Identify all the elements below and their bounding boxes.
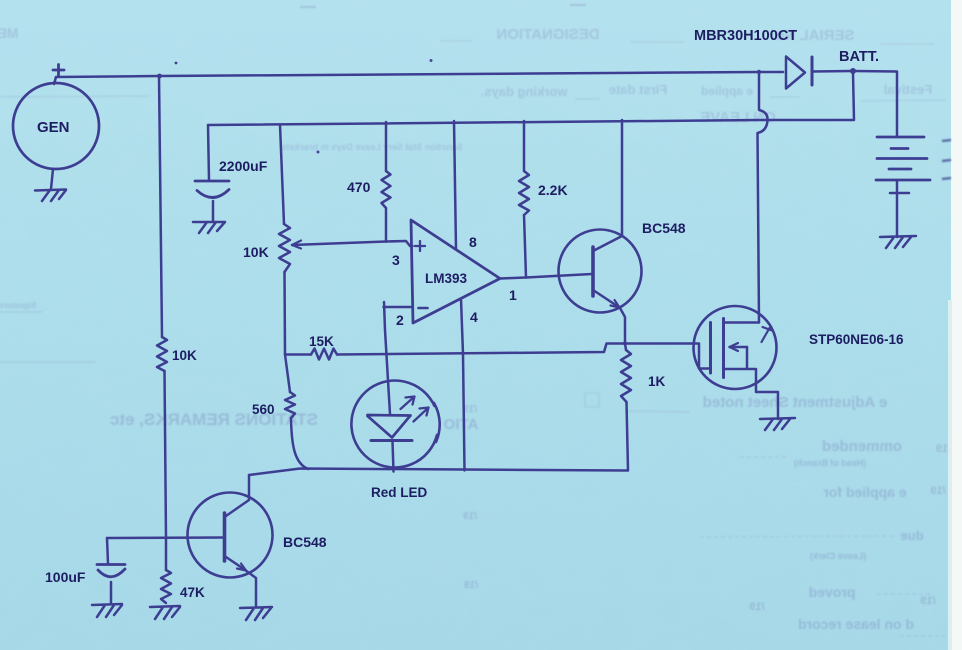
svg-text:ommended: ommended	[822, 438, 902, 455]
MOSFET drain connection	[724, 321, 760, 324]
resistor 2.2K top lead	[523, 121, 526, 171]
wire: GEN top to positive rail	[54, 77, 56, 84]
svg-text:/19: /19	[464, 580, 478, 591]
wire: second rail (after diode node down to distribution bus)	[208, 73, 854, 125]
LED triangle	[368, 415, 411, 438]
generator GEN plus terminal	[53, 65, 64, 76]
svg-text:BATT.: BATT.	[839, 49, 879, 65]
transistor Q2 base bar	[223, 513, 227, 561]
LED light arrow 2	[414, 408, 429, 422]
wire: top positive rail	[56, 72, 759, 77]
scan edge white strip	[951, 0, 962, 650]
svg-text:(Leave Clerk): (Leave Clerk)	[810, 551, 867, 561]
svg-text:DESIGNATION: DESIGNATION	[496, 26, 599, 43]
svg-text:MBR30H100CT: MBR30H100CT	[694, 28, 797, 44]
svg-text:470: 470	[347, 179, 371, 195]
svg-text:STATIONS REMARKS, etc: STATIONS REMARKS, etc	[110, 410, 318, 429]
wire: pin 2 inverting input	[384, 306, 413, 309]
MOSFET channel bar	[722, 319, 725, 378]
svg-text:/19: /19	[463, 511, 477, 522]
resistor 1K top lead	[625, 344, 626, 351]
svg-text:due: due	[900, 528, 923, 543]
MOSFET gate bar	[709, 323, 712, 374]
svg-text:2: 2	[396, 312, 404, 328]
capacitor 2200uF top lead	[208, 125, 209, 180]
wire: pin 4 ground line down to bottom bus	[461, 299, 465, 471]
transistor Q2 emitter with arrow	[225, 556, 247, 571]
svg-text:10K: 10K	[172, 348, 197, 363]
svg-text:Sanction Stat Serv Leave D: Sanction Stat Serv Leave Days in bracket…	[281, 142, 463, 152]
svg-text:d on lease record: d on lease record	[798, 616, 914, 632]
svg-text:Festival: Festival	[884, 82, 932, 97]
svg-text:1K: 1K	[648, 374, 666, 389]
svg-text:ME: ME	[0, 25, 19, 41]
diode D1 triangle	[786, 57, 805, 89]
svg-text:15K: 15K	[309, 334, 334, 349]
node: BATT junction dot	[850, 68, 856, 74]
svg-text:(Head of Branch): (Head of Branch)	[794, 458, 867, 468]
svg-text:10K: 10K	[243, 244, 269, 260]
resistor 470 bottom lead to node	[385, 208, 388, 242]
wire: battery top lead	[853, 71, 897, 137]
potentiometer 10K wiper arrow	[292, 242, 386, 246]
node: rail junction at left bus	[157, 74, 162, 79]
svg-text:e Adjustment Sheet noted: e Adjustment Sheet noted	[703, 394, 887, 411]
svg-text:19: 19	[936, 443, 948, 455]
transistor Q2 collector	[225, 475, 250, 517]
wire: op-amp output pin 1 to transistor base	[500, 274, 592, 279]
svg-text:e applied for: e applied for	[823, 484, 907, 500]
battery BATT plates	[876, 137, 930, 180]
svg-text:2200uF: 2200uF	[219, 158, 268, 174]
capacitor 2200uF plates	[195, 181, 229, 198]
ground under MOSFET	[760, 418, 795, 430]
resistor 15K element	[311, 349, 337, 360]
LED D2 circle	[351, 381, 439, 468]
svg-text:ATIO: ATIO	[443, 416, 478, 433]
transistor Q2 BC548 (lower) circle	[188, 493, 273, 578]
wire: 15K node to gate rail	[285, 353, 311, 356]
svg-text:47K: 47K	[180, 585, 205, 600]
LED cathode bar	[371, 439, 412, 442]
wire: pin 2 down to LED anode	[384, 302, 390, 414]
resistor 47K top lead	[165, 538, 168, 570]
wire: left vertical bus from rail to transistor base	[159, 76, 166, 538]
svg-text:GEN: GEN	[37, 119, 70, 136]
svg-text:First date: First date	[609, 82, 668, 97]
resistor 560 bottom lead (curved)	[291, 418, 308, 469]
capacitor 100uF top lead	[107, 538, 108, 564]
wire: pin 8 supply from rail	[454, 121, 456, 249]
generator GEN circle	[13, 83, 99, 169]
MOSFET gate lead	[694, 344, 710, 369]
node: emitter/gate/1K junction	[623, 341, 627, 345]
diode D1 MBR30H100CT anode wire	[759, 71, 783, 74]
transistor Q1 BC548 (upper) circle	[559, 230, 642, 313]
svg-text:BC548: BC548	[283, 534, 327, 550]
ground under 100uF	[92, 604, 122, 617]
resistor 470 element	[382, 171, 391, 208]
op-amp U1 LM393 triangle	[411, 220, 500, 323]
wire: base rail of lower transistor	[107, 536, 225, 539]
svg-text:4: 4	[470, 309, 478, 325]
wire: GEN bottom lead	[51, 169, 53, 189]
LED light arrow 1	[401, 397, 415, 410]
op-amp minus sign	[419, 307, 428, 310]
svg-text:Red LED: Red LED	[371, 485, 428, 500]
LED cathode lead to bus	[393, 441, 394, 472]
resistor 2.2K element	[519, 171, 529, 215]
resistor 560 element	[285, 392, 295, 418]
MOSFET body diode mark	[762, 327, 773, 342]
svg-text:2.2K: 2.2K	[538, 182, 568, 198]
capacitor 2200uF bottom lead	[212, 201, 215, 221]
svg-text:/19: /19	[920, 595, 935, 607]
ground under Q2 emitter	[240, 607, 272, 620]
svg-text:/19: /19	[930, 485, 945, 497]
wire: MOSFET drain vertical with hop over rail	[758, 72, 768, 323]
svg-text:100uF: 100uF	[45, 569, 86, 585]
capacitor 100uF plates	[97, 565, 125, 577]
battery negative lead with tick	[890, 180, 909, 237]
MOSFET source arrow	[730, 346, 748, 349]
svg-text:8: 8	[469, 234, 477, 250]
MOSFET Q3 circle	[694, 306, 777, 389]
svg-text:BC548: BC548	[642, 220, 686, 236]
svg-text:3: 3	[392, 252, 400, 268]
transistor Q1 base bar	[591, 247, 595, 296]
svg-text:560: 560	[252, 402, 275, 417]
transistor Q1 collector	[593, 120, 622, 251]
resistor 47K element	[161, 570, 171, 603]
potentiometer 10K top lead	[280, 125, 284, 224]
diode D1 cathode bar	[811, 57, 814, 85]
transistor Q1 emitter with arrow	[593, 290, 620, 308]
wire: diode to battery node	[812, 70, 852, 73]
svg-text:LM393: LM393	[425, 271, 468, 286]
ground under GEN	[35, 190, 66, 202]
svg-text:working days.: working days.	[481, 84, 569, 99]
wire: bottom bus (collector/560/LED/pin4/1K)	[249, 469, 628, 476]
ground under 2200uF	[193, 222, 225, 233]
svg-text:Signature: Signature	[0, 301, 36, 310]
resistor 1K element	[621, 350, 631, 402]
wire: pin3 feed into op-amp	[386, 241, 413, 246]
svg-text:/19: /19	[749, 601, 764, 613]
wire: 15K to step and MOSFET gate	[337, 344, 694, 355]
MOSFET source/body connection	[724, 347, 779, 419]
resistor 10K (left bus)	[157, 337, 167, 371]
capacitor 100uF bottom lead	[110, 582, 113, 604]
op-amp plus sign	[415, 241, 425, 251]
resistor 1K bottom lead	[627, 402, 629, 471]
svg-text:STP60NE06-16: STP60NE06-16	[809, 332, 904, 347]
potentiometer 10K element	[279, 224, 290, 272]
resistor 470 top lead	[385, 122, 388, 171]
svg-text:e applied: e applied	[701, 84, 753, 98]
resistor 2.2K bottom lead to output wire	[524, 215, 526, 278]
resistor 560 top lead	[285, 355, 290, 393]
svg-text:1: 1	[509, 287, 517, 303]
svg-text:proved: proved	[809, 584, 856, 600]
speck above rail	[175, 62, 178, 65]
ground under battery	[880, 236, 916, 248]
ground under 47K	[150, 606, 180, 619]
potentiometer 10K bottom lead	[283, 272, 286, 355]
